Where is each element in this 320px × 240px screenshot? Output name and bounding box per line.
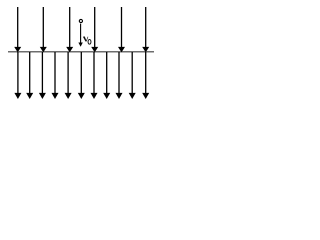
top field arrow 5 (118, 7, 125, 52)
top field arrow 6 (142, 7, 149, 52)
velocity arrow of particle (78, 24, 82, 47)
lower field arrow 4 (52, 52, 59, 99)
top field arrow 1 (14, 7, 21, 52)
lower field arrow 7 (91, 52, 98, 99)
background (0, 0, 156, 107)
top field arrow 4 (91, 7, 98, 52)
lower field arrow 10 (129, 52, 136, 99)
lower field arrow 1 (14, 52, 21, 99)
particle (small ring) (79, 19, 82, 22)
lower field arrow 9 (116, 52, 123, 99)
lower field arrow 3 (39, 52, 46, 99)
lower field arrow 11 (142, 52, 149, 99)
lower field arrow 2 (26, 52, 33, 99)
lower field arrow 5 (65, 52, 72, 99)
top field arrow 2 (40, 7, 47, 52)
label v0 (83, 36, 88, 41)
lower field arrow 6 (78, 52, 85, 99)
lower field arrow 8 (103, 52, 110, 99)
surface line (field boundary) (8, 51, 154, 53)
top field arrow 3 (66, 7, 73, 52)
